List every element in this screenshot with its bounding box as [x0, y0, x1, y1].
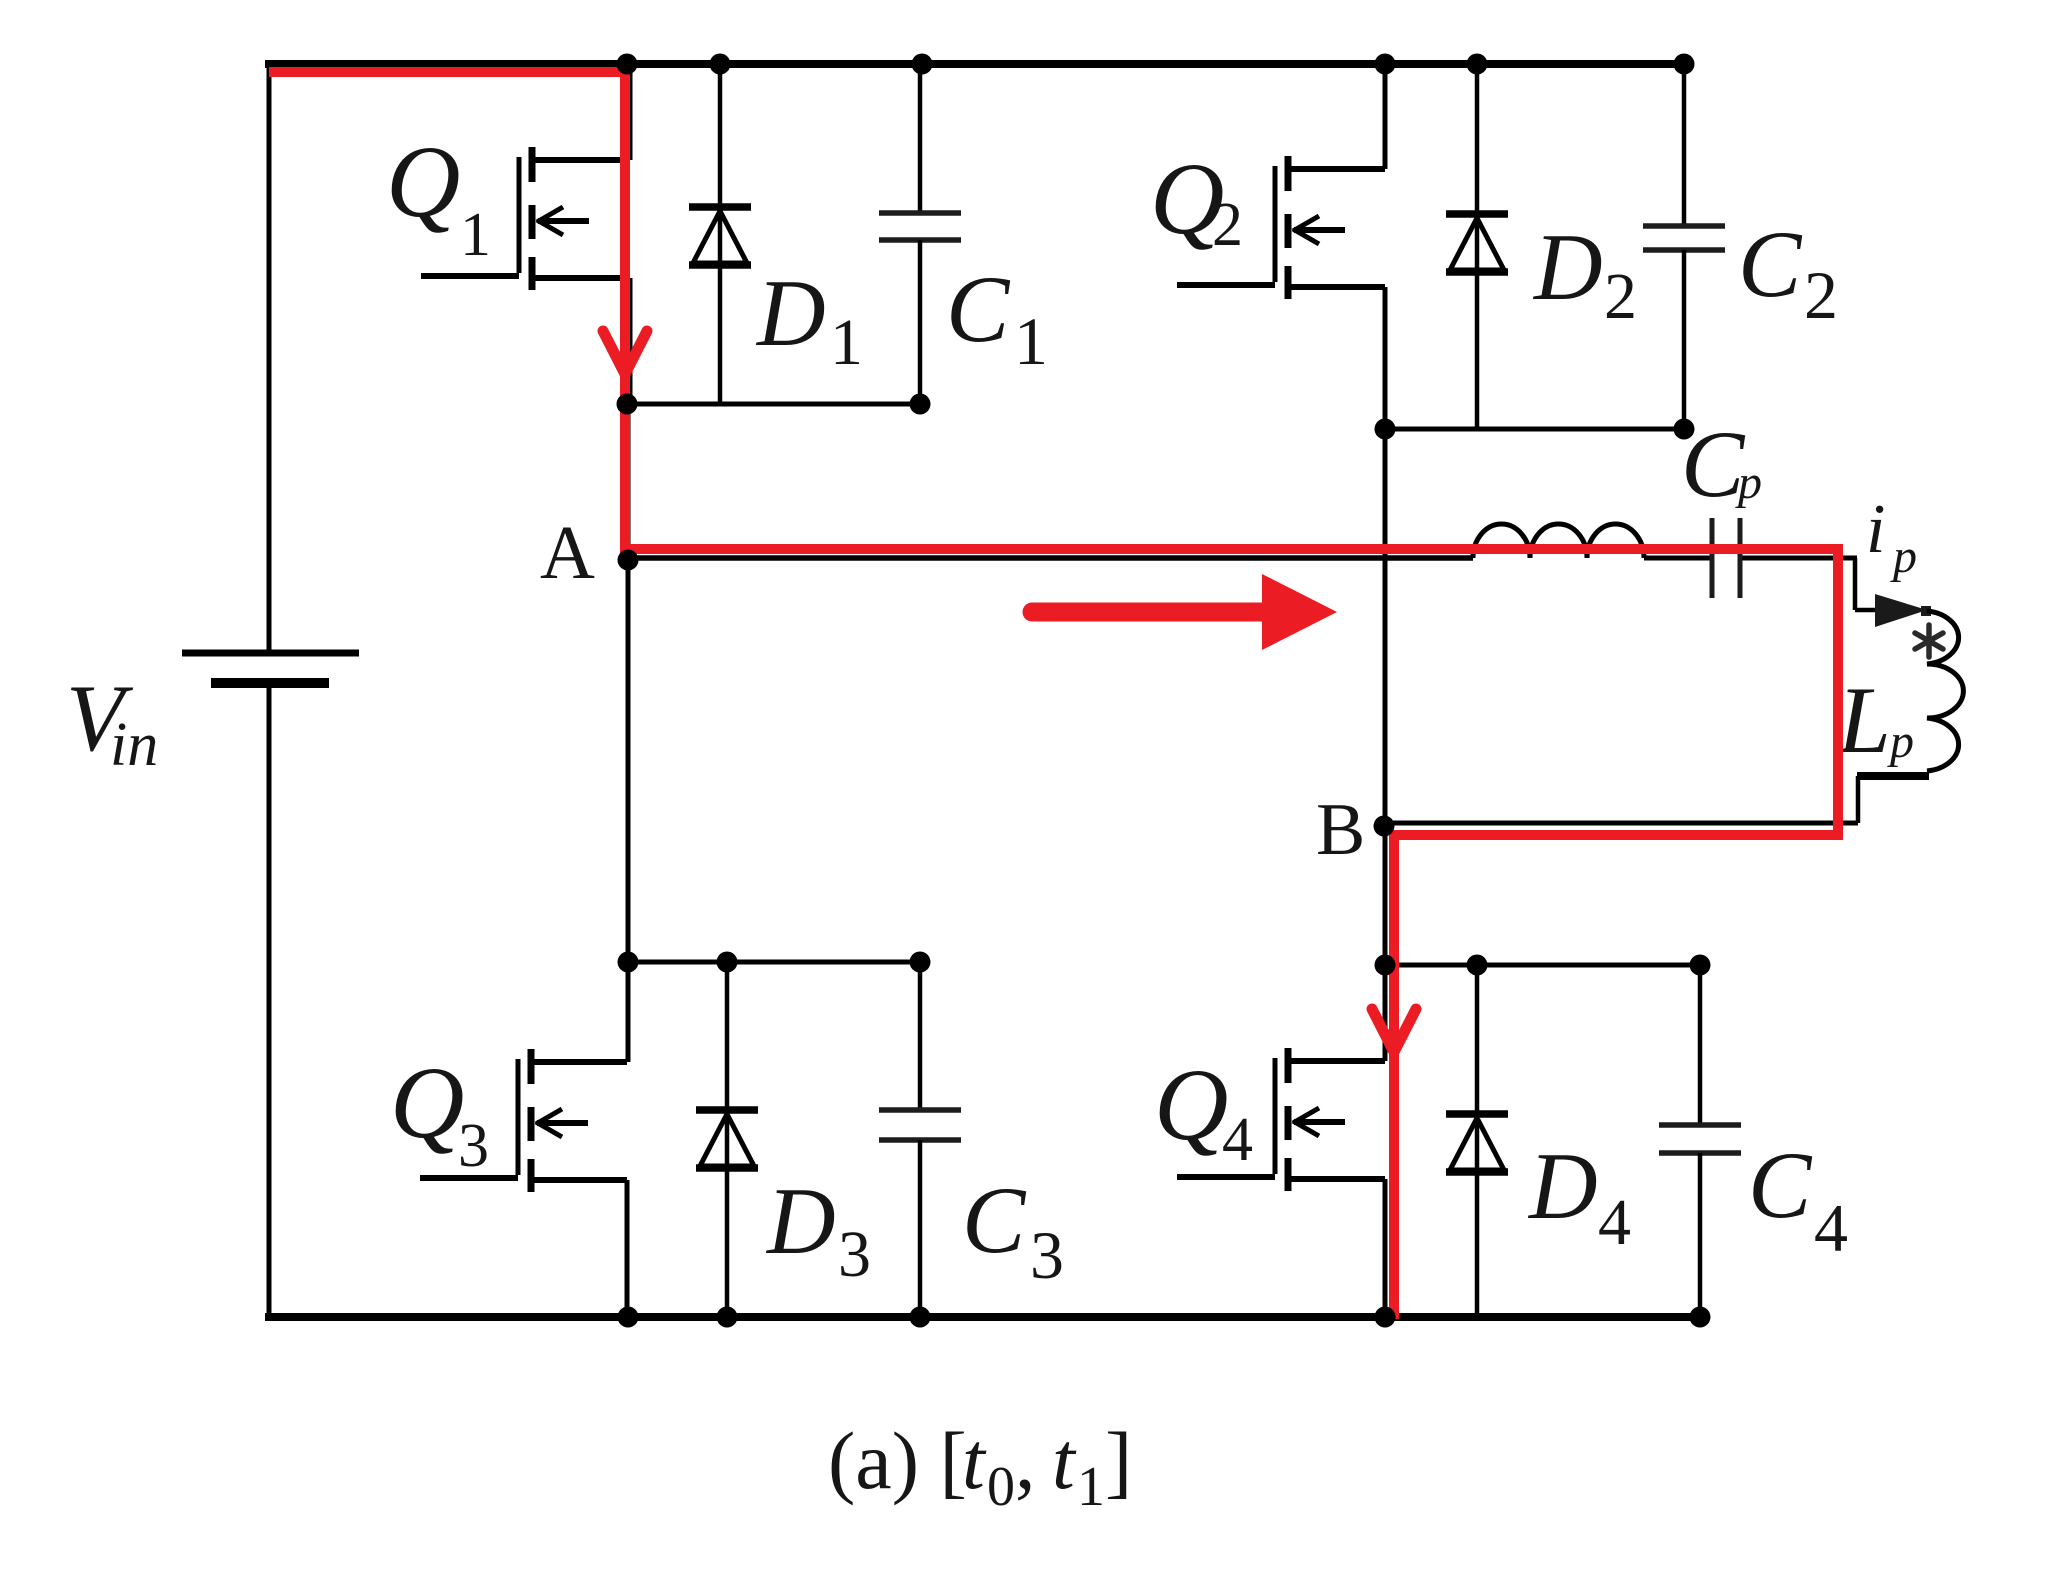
svg-text:4: 4: [1222, 1106, 1253, 1174]
svg-text:C: C: [962, 1167, 1027, 1273]
wire node A to resonant tank: [627, 555, 1857, 561]
svg-text:(a) [: (a) [: [828, 1415, 967, 1506]
wire transformer bottom to node B: [1384, 776, 1929, 823]
caption (a) [t0, t1]: [828, 1415, 1132, 1518]
transistor Q4: [1154, 1048, 1385, 1191]
diode D4: [1446, 965, 1631, 1316]
wire Q3 leg upper (cell top to drain): [626, 962, 631, 1062]
red current arrow mid (A to B direction): [1032, 574, 1337, 650]
svg-text:2: 2: [1212, 191, 1243, 259]
transistor Q2: [1150, 142, 1385, 299]
wire Q1 cell bottom (to D1, C1): [627, 402, 920, 407]
red current arrow through Q1: [603, 331, 647, 374]
svg-text:B: B: [1316, 789, 1365, 871]
svg-text:in: in: [110, 711, 158, 779]
capacitor C2: [1643, 64, 1838, 429]
arrow into transformer (ip direction): [1875, 594, 1931, 627]
wire Q2 leg column (top rail to node B to Q4): [1383, 64, 1388, 1061]
svg-text:C: C: [1748, 1132, 1813, 1238]
capacitor C1: [879, 64, 1048, 404]
svg-text:,: ,: [1015, 1415, 1036, 1506]
svg-text:L: L: [1836, 667, 1891, 773]
svg-text:3: 3: [458, 1112, 489, 1180]
svg-text:2: 2: [1804, 257, 1838, 333]
svg-text:1: 1: [1077, 1456, 1105, 1518]
wire bottom rail: [265, 1313, 1700, 1321]
diode D3: [696, 962, 871, 1317]
diode D1: [689, 64, 863, 404]
svg-text:1: 1: [460, 201, 491, 269]
wire Q2 cell bottom (to D2, C2): [1385, 427, 1684, 432]
red current arrow through Q4: [1372, 1009, 1416, 1052]
svg-text:D: D: [755, 260, 826, 366]
capacitor Cp: [1681, 411, 1762, 598]
inductor Ls (series resonant): [1473, 524, 1644, 558]
capacitor C3: [879, 962, 1064, 1317]
wire red current path: top rail through Q1 to node A: [269, 72, 625, 553]
svg-text:]: ]: [1105, 1415, 1132, 1506]
inductor Lp (transformer primary): [1836, 611, 1963, 773]
svg-text:i: i: [1866, 491, 1885, 568]
wire tank to transformer top: [1855, 558, 1880, 610]
svg-text:p: p: [1887, 715, 1914, 768]
wire Q3 leg lower: [625, 1180, 630, 1317]
svg-text:A: A: [540, 511, 595, 595]
transistor Q3: [390, 1046, 627, 1192]
svg-text:D: D: [1527, 1133, 1598, 1239]
svg-text:1: 1: [1014, 303, 1048, 379]
battery Vin: [66, 653, 359, 779]
svg-text:C: C: [1738, 211, 1803, 317]
svg-text:1: 1: [830, 306, 863, 379]
svg-text:D: D: [1532, 214, 1603, 320]
svg-text:D: D: [765, 1168, 836, 1274]
svg-text:2: 2: [1604, 260, 1637, 333]
svg-text:t: t: [962, 1415, 987, 1506]
transistor Q1: [386, 125, 627, 290]
wire Q4 cell top (to D4, C4): [1385, 963, 1700, 968]
current label ip: [1866, 491, 1917, 583]
svg-text:4: 4: [1598, 1186, 1631, 1259]
wire red current path: node B through Q4 to bottom rail: [1389, 831, 1399, 1319]
node B: [1316, 789, 1395, 871]
svg-text:Q: Q: [390, 1046, 464, 1160]
svg-text:4: 4: [1814, 1190, 1848, 1266]
wire top rail: [265, 60, 1684, 68]
svg-text:Q: Q: [1154, 1048, 1228, 1162]
capacitor C4: [1659, 965, 1848, 1316]
transformer dot marking (asterisk): [1915, 625, 1943, 657]
wire Q4 leg lower: [1383, 1179, 1388, 1317]
wire left vertical (Vin to rails): [267, 60, 272, 1317]
svg-text:3: 3: [1030, 1217, 1064, 1293]
diode D2: [1446, 64, 1637, 429]
svg-text:p: p: [1890, 530, 1917, 583]
svg-text:0: 0: [987, 1456, 1015, 1518]
wire Q3 cell top (to D3, C3): [627, 960, 920, 965]
wire Q1 leg column (top rail to node A to Q3): [628, 64, 630, 962]
svg-text:3: 3: [838, 1218, 871, 1291]
svg-text:C: C: [946, 256, 1011, 362]
svg-text:p: p: [1735, 456, 1762, 509]
node A: [540, 511, 639, 595]
svg-text:Q: Q: [386, 125, 460, 239]
svg-text:t: t: [1052, 1415, 1077, 1506]
wire red current path: node A to tank to node B: [622, 549, 1838, 835]
